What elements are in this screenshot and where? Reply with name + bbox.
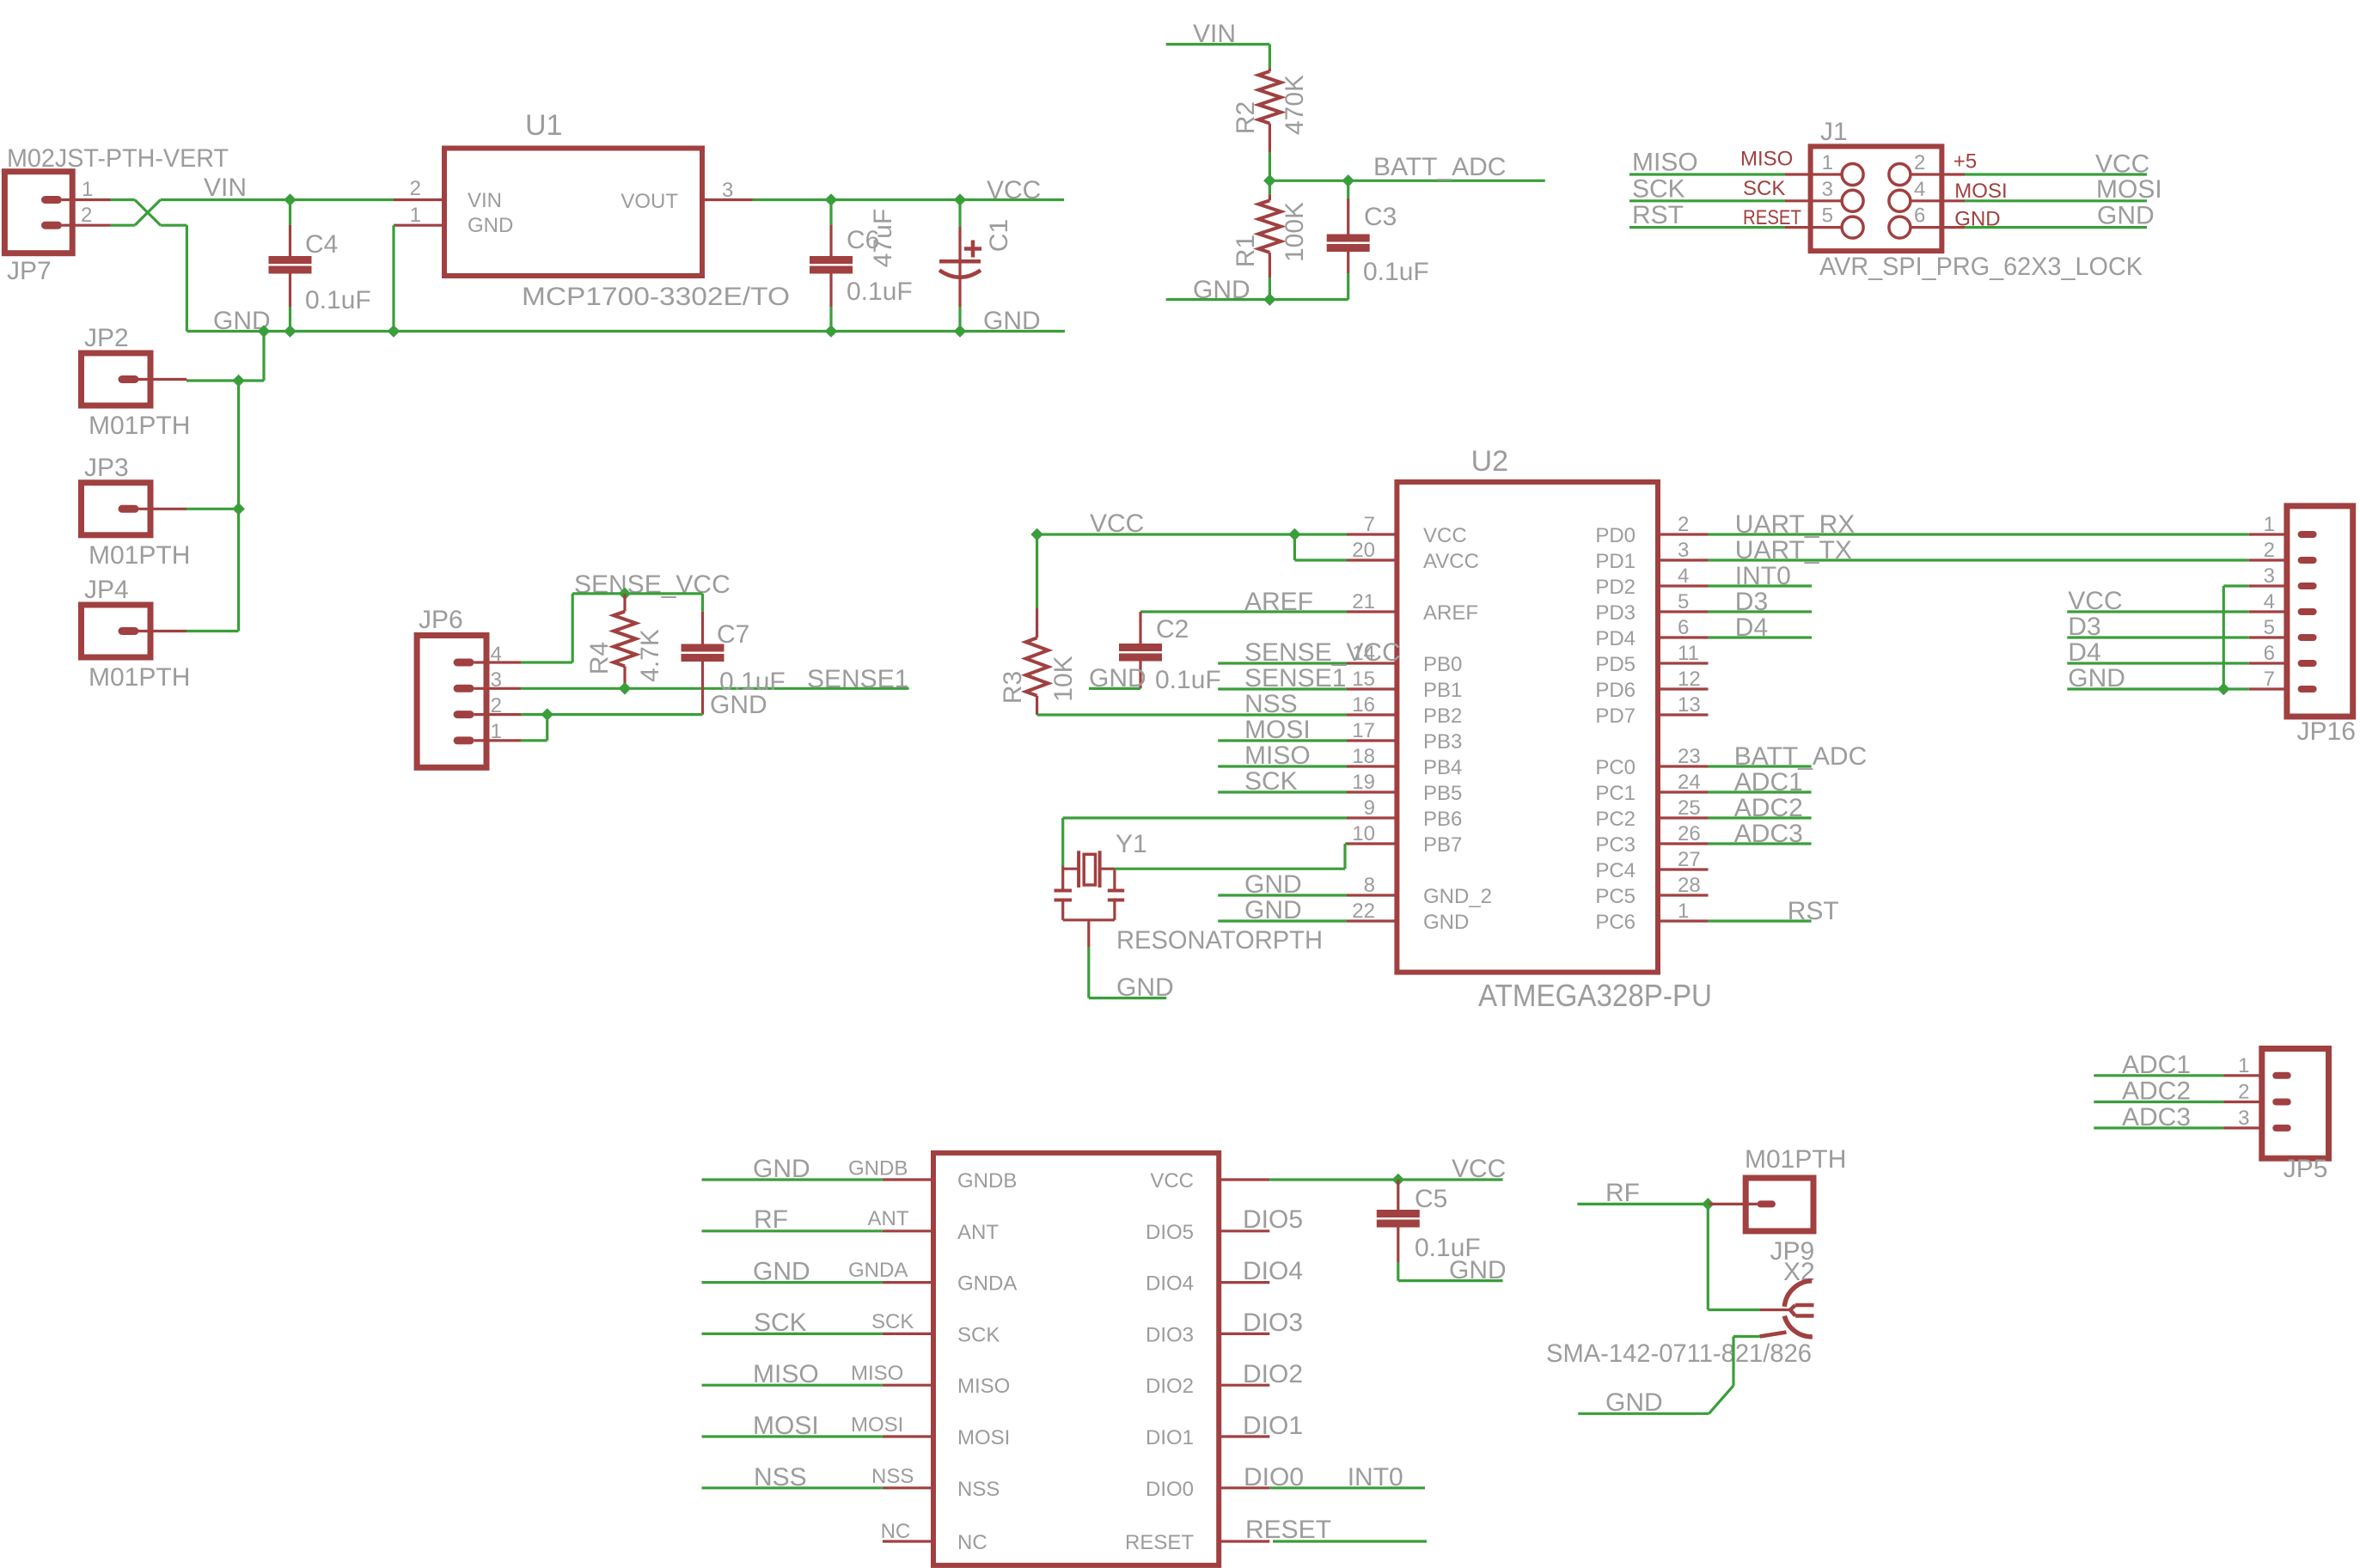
svg-text:12: 12 [1678,668,1701,691]
U1 pin name VIN [468,189,502,212]
wire VCC to U2 pin 7 [1037,533,1347,535]
svg-text:PD6: PD6 [1595,679,1635,702]
svg-text:GND: GND [1423,911,1469,934]
U2 pin name PC1 [1595,782,1635,805]
JP7 pin 2 stub [62,224,111,227]
svg-text:C2: C2 [1156,615,1189,644]
wire GND from J1 [1965,226,2147,229]
JP6 pin 1 number [491,720,502,743]
U2 pin name AVCC [1423,550,1479,573]
junction GND bus at U1 pin 1 branch [388,325,400,338]
capacitor C3 name label [1364,203,1397,231]
U2 pin 1 PC6 stub [1658,919,1709,922]
U2 pin name PC5 [1595,885,1635,908]
connector JP7 name label [7,257,52,285]
capacitor C5 [1377,1180,1420,1281]
wire ADC3 at U2 [1709,842,1812,845]
net label D4 at JP16 [2068,638,2100,667]
net label RESET at rf [1245,1516,1331,1544]
svg-text:PD1: PD1 [1595,550,1635,573]
wire GND bus [186,330,1065,333]
rf module pin SCK stub [883,1333,933,1335]
wire RST at U2 [1709,919,1812,922]
JP7 pin 1 number [82,178,93,201]
U2 pin name PD1 [1595,550,1635,573]
capacitor C6 name label [847,226,879,254]
capacitor C1 name label rotated [985,219,1013,252]
svg-text:ATMEGA328P-PU: ATMEGA328P-PU [1478,978,1712,1013]
net label SCK at rf [754,1309,807,1337]
junction SENSE_VCC at R4 [619,588,632,601]
wire UART_TX [1709,558,2249,561]
svg-text:MOSI: MOSI [957,1426,1010,1449]
svg-text:MISO: MISO [957,1375,1010,1398]
svg-text:RESET: RESET [1245,1516,1331,1544]
U2 pin name PD4 [1595,627,1635,650]
U2 pin name PB1 [1423,679,1462,702]
svg-text:PB4: PB4 [1423,756,1462,779]
connector JP16 name label [2297,717,2356,746]
wire RF branch down to X2 [1708,1204,1759,1309]
rf module pin name MISO [957,1375,1010,1398]
J1 pin 2 stub [1911,173,1965,175]
net label ADC2 at JP5 [2122,1077,2191,1106]
junction GND at R1 [1263,293,1276,306]
wire GND from X2 [1578,1337,1759,1414]
junction GND bus at C1 [954,325,967,338]
svg-text:JP16: JP16 [2297,717,2356,746]
U1 pin 3 stub VOUT [702,198,753,201]
svg-text:RESONATORPTH: RESONATORPTH [1116,926,1323,955]
JP16 pin 6 number [2264,642,2275,665]
connector JP5 name label [2284,1155,2328,1183]
junction GND at JP16 branch [2217,683,2230,696]
junction VCC at C6 [825,193,838,206]
svg-text:GNDA: GNDA [957,1272,1017,1296]
JP16 pin 2 number [2264,539,2275,562]
header J1 value label AVR_SPI_PRG_62X3_LOCK [1819,253,2143,281]
net label RST at U2 [1788,897,1839,925]
svg-text:7: 7 [1364,513,1375,536]
svg-text:DIO4: DIO4 [1146,1272,1194,1296]
U1 pin name GND [468,214,513,237]
net label GND at X2 [1605,1388,1663,1417]
rf module pin VCC stub right [1219,1178,1269,1181]
net label DIO2 [1243,1360,1303,1388]
J1 pin 5 number [1822,204,1833,228]
net label MISO at rf [753,1360,819,1388]
svg-text:47uF: 47uF [869,209,897,267]
junction JP2 wire [232,375,245,387]
net label RST left of J1 [1632,201,1684,229]
capacitor C2 [1119,612,1162,688]
rf module body [933,1153,1219,1565]
svg-text:PD0: PD0 [1595,524,1635,547]
U2 pin 5 number [1678,590,1689,613]
wire JP16 pin3 to GND branch [2223,586,2248,689]
label NC outer [881,1520,911,1543]
wire SENSE_VCC stub at U2 [1218,662,1347,664]
svg-text:16: 16 [1352,693,1375,717]
U2 pin 15 number [1352,668,1375,691]
svg-text:PC3: PC3 [1595,833,1635,857]
net label VCC at JP16 [2068,587,2122,615]
svg-text:PC6: PC6 [1595,911,1635,934]
resistor R4 name label rotated [585,642,614,674]
U2 pin 26 PC3 stub [1658,842,1709,845]
U2 pin 21 AREF stub [1347,610,1397,613]
U2 pin 3 PD1 stub [1658,558,1709,561]
U2 pin 16 PB2 stub [1347,713,1397,716]
svg-text:5: 5 [2264,616,2275,639]
svg-text:11: 11 [1678,642,1699,665]
J1 pin 2 number [1914,151,1925,174]
net label GND at C2 [1089,664,1146,692]
U2 pin 12 number [1678,668,1701,691]
U2 pin 14 number [1352,642,1375,665]
wire GND battery divider [1166,298,1348,301]
svg-text:3: 3 [2264,564,2275,588]
net label DIO1 [1243,1412,1303,1440]
U2 pin 6 PD4 stub [1658,636,1709,638]
JP16 pin 1 number [2264,513,2275,536]
svg-text:0.1uF: 0.1uF [847,278,913,306]
net label BATT_ADC at U2 [1734,742,1867,771]
U2 pin 25 number [1678,796,1701,820]
svg-text:ANT: ANT [868,1207,909,1230]
net label SENSE_VCC [574,570,731,599]
svg-text:17: 17 [1352,719,1375,742]
svg-text:MOSI: MOSI [2096,175,2162,204]
svg-text:MOSI: MOSI [1244,716,1311,744]
svg-text:PD7: PD7 [1595,705,1635,728]
wire INT0 at U2 [1709,584,1813,587]
resistor R4 [614,594,636,688]
svg-text:3: 3 [1678,539,1689,562]
JP5 pin 2 number [2238,1081,2249,1104]
U2 pin 9 PB6 stub [1347,816,1397,819]
svg-text:PB2: PB2 [1423,705,1462,728]
svg-text:SMA-142-0711-821/826: SMA-142-0711-821/826 [1546,1339,1812,1368]
J1 pin 4 number [1914,178,1925,201]
wire DIO0 to INT0 [1269,1486,1425,1489]
svg-text:1: 1 [1822,151,1833,174]
U2 pin 26 number [1678,822,1701,845]
U2 pin 7 number [1364,513,1375,536]
wire JP6 pin1 riser [521,715,547,741]
resonator Y1 value label RESONATORPTH [1116,926,1323,955]
svg-text:DIO3: DIO3 [1243,1309,1303,1337]
capacitor C1 polarized [939,200,981,332]
svg-text:AVCC: AVCC [1423,550,1479,573]
label MOSI outer [851,1413,903,1437]
header J1 name label [1820,118,1848,146]
U2 pin 2 number [1678,513,1689,536]
resonator Y1 body [1055,851,1125,947]
svg-text:VIN: VIN [204,174,247,202]
svg-text:VCC: VCC [1423,524,1467,547]
svg-text:RF: RF [754,1205,788,1234]
svg-text:4: 4 [2264,590,2275,613]
net label GND on bus left [213,307,271,335]
antenna X2 name label [1783,1258,1815,1286]
JP16 pin 5 number [2264,616,2275,639]
U2 pin name PD6 [1595,679,1635,702]
rf module pin name VCC right [1150,1169,1194,1193]
U2 pin 13 PD7 stub [1658,713,1709,716]
JP6 pin 2 stub [474,713,522,716]
U2 pin name PD2 [1595,576,1635,599]
antenna X2 value label SMA-142-0711-821/826 [1546,1339,1812,1368]
rf module pin GNDB stub [883,1178,933,1181]
svg-text:GNDA: GNDA [848,1259,908,1282]
net label SCK at U2 [1244,767,1298,796]
svg-text:PD3: PD3 [1595,601,1635,625]
connector JP3 value label M01PTH [89,541,190,570]
label GNDB outer [848,1157,908,1181]
svg-text:PD2: PD2 [1595,576,1635,599]
svg-text:C7: C7 [717,620,749,649]
net label GND at C5 [1449,1256,1507,1284]
connector JP4 name label [84,576,129,604]
U1 pin 2 number [410,177,421,200]
svg-text:C1: C1 [985,219,1013,252]
antenna X2 SMA symbol [1760,1281,1814,1337]
J1 pin 6 stub [1911,226,1965,229]
svg-text:19: 19 [1352,771,1375,794]
net label SENSE1 [807,665,908,693]
rf module pin DIO1 stub right [1219,1435,1269,1437]
JP6 pin 3 stub [474,687,522,690]
net label AREF [1244,588,1313,616]
svg-text:10K: 10K [1049,656,1078,701]
U1 pin 1 number [410,204,421,227]
resistor R2 value label 470K rotated [1281,75,1309,135]
net label RF at ANT [754,1205,788,1234]
svg-text:M02JST-PTH-VERT: M02JST-PTH-VERT [7,144,229,173]
svg-text:GNDB: GNDB [848,1157,908,1181]
svg-text:VCC: VCC [1150,1169,1194,1193]
resistor R1 name label rotated [1232,235,1260,267]
resistor R4 value label 4.7K rotated [636,629,664,682]
svg-text:2: 2 [1678,513,1689,536]
JP16 pin 6 stub [2249,662,2287,664]
rf module pin RESET stub right [1219,1540,1269,1542]
JP2 pin stub [138,380,186,381]
U2 pin 28 number [1678,874,1701,897]
svg-text:C4: C4 [305,230,338,259]
wire Y1 center pin to GND [1089,947,1166,998]
U2 pin 14 PB0 stub [1347,662,1397,664]
wire VCC from J1 [1965,173,2147,175]
U2 pin name GND_2 [1423,885,1492,908]
J1 pin 3 circle [1842,190,1863,211]
svg-text:DIO5: DIO5 [1243,1205,1303,1234]
U2 pin name VCC [1423,524,1467,547]
wire AVCC branch [1294,534,1347,560]
wire Y1 right pin to U2 PB7 [1115,844,1347,869]
wire D4 to JP16 [2067,662,2248,664]
svg-text:GND: GND [1605,1388,1663,1417]
svg-text:UART_RX: UART_RX [1735,510,1855,539]
svg-text:GND: GND [468,214,513,237]
rf module pin name RESET right [1125,1531,1194,1554]
svg-text:PB3: PB3 [1423,730,1462,753]
svg-text:SCK: SCK [1632,174,1685,203]
U2 pin 8 number [1364,874,1375,897]
resistor R2 [1258,68,1281,180]
rf module pin name MOSI [957,1426,1010,1449]
wire BATT_ADC at U2 [1709,765,1812,767]
resistor R3 name label rotated [999,671,1027,704]
svg-text:PB6: PB6 [1423,808,1462,831]
svg-text:PC2: PC2 [1595,808,1635,831]
capacitor C5 value label [1415,1234,1481,1262]
J1 pin 2 circle [1889,164,1911,186]
net label SENSE1 at U2 [1244,664,1346,692]
U2 pin 27 number [1678,848,1701,871]
U2 pin 10 PB7 stub [1347,842,1397,845]
wire D3 to JP16 [2067,636,2248,638]
resistor R1 [1258,180,1281,299]
svg-text:SENSE_VCC: SENSE_VCC [1244,638,1401,667]
wire VCC from U1 VOUT [753,198,1065,201]
svg-text:0.1uF: 0.1uF [305,286,371,314]
svg-text:1: 1 [2238,1054,2249,1077]
net label GND at U2 pin 8 [1244,870,1302,899]
J1 pin 3 stub [1785,199,1842,202]
U2 pin 22 number [1352,900,1375,923]
wire ADC1 to JP5 [2094,1074,2223,1077]
svg-text:470K: 470K [1281,75,1309,135]
net label GND battery divider [1193,276,1250,304]
connector JP4 body [82,605,151,657]
capacitor C2 name label [1156,615,1189,644]
JP7 pin 2 number [81,204,92,227]
rf module pin name NSS [957,1478,1000,1501]
wire MOSI from J1 [1965,199,2147,202]
wire D4 at U2 [1709,636,1813,638]
svg-text:MISO: MISO [851,1362,903,1385]
svg-text:28: 28 [1678,874,1701,897]
svg-text:20: 20 [1352,539,1375,562]
junction JP6 pin1 riser [541,708,553,721]
net label MOSI at rf [753,1412,819,1440]
junction VCC at R3 branch [1030,528,1043,541]
svg-text:2: 2 [1914,151,1925,174]
svg-text:PB7: PB7 [1423,833,1462,857]
svg-text:2: 2 [410,177,421,200]
svg-text:GND: GND [1449,1256,1507,1284]
svg-text:23: 23 [1678,745,1701,768]
U2 pin name PB6 [1423,808,1462,831]
svg-text:GND: GND [1089,664,1146,692]
svg-text:NSS: NSS [1244,690,1298,718]
svg-text:21: 21 [1352,590,1375,613]
J1 pin label +5 maroon [1953,150,1977,174]
capacitor C6 value label 0.1uF [847,278,913,306]
svg-text:NC: NC [881,1520,911,1543]
JP6 pin 4 number [491,643,502,666]
JP16 pin 3 stub [2249,584,2287,587]
net label ADC1 at U2 [1734,768,1803,796]
rf module pin name DIO4 right [1146,1272,1194,1296]
connector JP6 name label [419,606,463,634]
svg-text:VCC: VCC [1452,1155,1506,1183]
U2 pin name PB4 [1423,756,1462,779]
U1 pin 3 number [722,179,733,202]
svg-text:13: 13 [1678,693,1701,717]
svg-text:DIO5: DIO5 [1146,1221,1194,1244]
svg-text:AVR_SPI_PRG_62X3_LOCK: AVR_SPI_PRG_62X3_LOCK [1819,253,2143,281]
svg-text:GND_2: GND_2 [1423,885,1492,908]
rf module pin DIO0 stub right [1219,1486,1269,1489]
wire SENSE_VCC [572,592,702,595]
svg-text:JP6: JP6 [419,606,463,634]
junction GND bus at C4 [284,325,297,338]
JP16 pin 2 stub [2249,558,2287,561]
wire GND stub at U2 pin 22 [1218,919,1347,922]
U2 pin 13 number [1678,693,1701,717]
U2 pin 11 number [1678,642,1699,665]
svg-text:24: 24 [1678,771,1701,794]
wire lower from crossover down to GND bus [161,225,187,331]
net label GND at U2 pin 22 [1244,896,1302,924]
connector JP9 value label M01PTH [1745,1145,1846,1174]
net label DIO0 [1244,1463,1304,1492]
J1 pin 5 stub [1785,226,1842,229]
capacitor C7 [682,594,725,715]
svg-text:JP5: JP5 [2284,1155,2328,1183]
J1 pin 4 stub [1911,199,1965,202]
svg-text:AREF: AREF [1423,601,1478,625]
JP5 pin 3 number [2238,1107,2249,1130]
svg-text:7: 7 [2264,668,2275,691]
net label SENSE_VCC at U2 [1244,638,1401,667]
svg-text:1: 1 [1678,900,1689,923]
connector JP9 name label [1770,1237,1815,1266]
svg-text:JP4: JP4 [84,576,129,604]
connector JP3 body [82,483,151,535]
U2 pin 4 number [1678,564,1689,588]
svg-text:DIO4: DIO4 [1243,1257,1303,1285]
U2 pin 2 PD0 stub [1658,533,1709,535]
wire BATT_ADC [1269,180,1544,182]
svg-text:Y1: Y1 [1116,830,1147,858]
rf module pin MISO stub [883,1384,933,1387]
svg-text:R2: R2 [1232,101,1260,134]
svg-text:U2: U2 [1471,445,1508,478]
svg-text:DIO0: DIO0 [1146,1478,1194,1501]
svg-text:GND: GND [1244,896,1302,924]
capacitor C4 name label [305,230,338,259]
svg-text:3: 3 [1822,178,1833,201]
svg-text:GNDB: GNDB [957,1169,1017,1193]
net label UART_RX [1735,510,1855,539]
wire RF to ANT [702,1229,883,1232]
svg-text:GND: GND [2097,202,2155,230]
net label ADC3 at U2 [1734,820,1803,848]
junction GND bus at JP2 branch [258,325,271,338]
svg-text:1: 1 [82,178,93,201]
rf module pin name DIO0 right [1146,1478,1194,1501]
JP6 pin 1 stub [474,739,522,741]
junction JP3 wire [232,503,245,516]
svg-text:R3: R3 [999,671,1027,704]
connector JP5 body [2262,1049,2329,1159]
svg-text:22: 22 [1352,900,1375,923]
U2 pin 4 PD2 stub [1658,584,1709,587]
